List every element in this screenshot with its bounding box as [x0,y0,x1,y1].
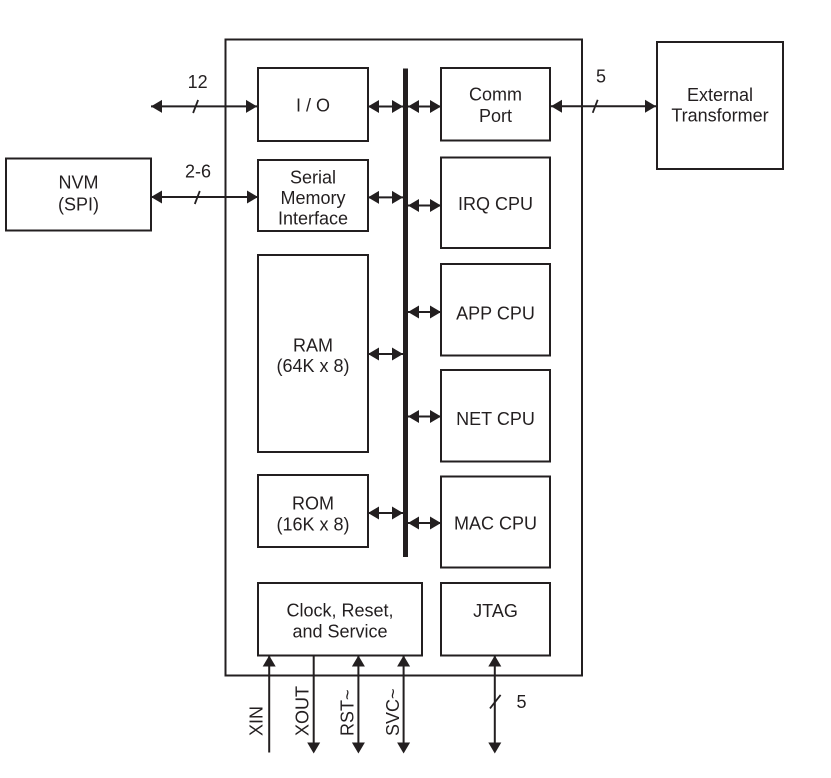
svg-text:RST~: RST~ [338,689,358,736]
svg-text:Clock, Reset,: Clock, Reset, [286,601,393,621]
svg-text:5: 5 [516,692,526,712]
svg-text:2-6: 2-6 [185,161,211,181]
svg-text:ROM: ROM [292,494,334,514]
svg-text:MAC CPU: MAC CPU [454,514,537,534]
svg-text:12: 12 [188,72,208,92]
svg-text:NVM: NVM [59,173,99,193]
svg-text:XOUT: XOUT [293,686,313,736]
svg-text:Transformer: Transformer [671,106,768,126]
svg-text:and Service: and Service [292,622,387,642]
svg-text:Port: Port [479,106,512,126]
svg-text:Memory: Memory [280,188,345,208]
svg-text:RAM: RAM [293,335,333,355]
svg-text:Comm: Comm [469,85,522,105]
svg-text:Interface: Interface [278,209,348,229]
svg-text:(16K x 8): (16K x 8) [276,515,349,535]
svg-text:External: External [687,85,753,105]
svg-text:IRQ CPU: IRQ CPU [458,194,533,214]
svg-text:XIN: XIN [247,706,267,736]
svg-text:JTAG: JTAG [473,601,518,621]
svg-text:NET CPU: NET CPU [456,409,535,429]
svg-text:APP CPU: APP CPU [456,304,535,324]
svg-text:I / O: I / O [296,96,330,116]
svg-text:5: 5 [596,66,606,86]
svg-text:SVC~: SVC~ [383,688,403,736]
svg-text:Serial: Serial [290,167,336,187]
svg-text:(64K x 8): (64K x 8) [276,356,349,376]
svg-text:(SPI): (SPI) [58,195,99,215]
